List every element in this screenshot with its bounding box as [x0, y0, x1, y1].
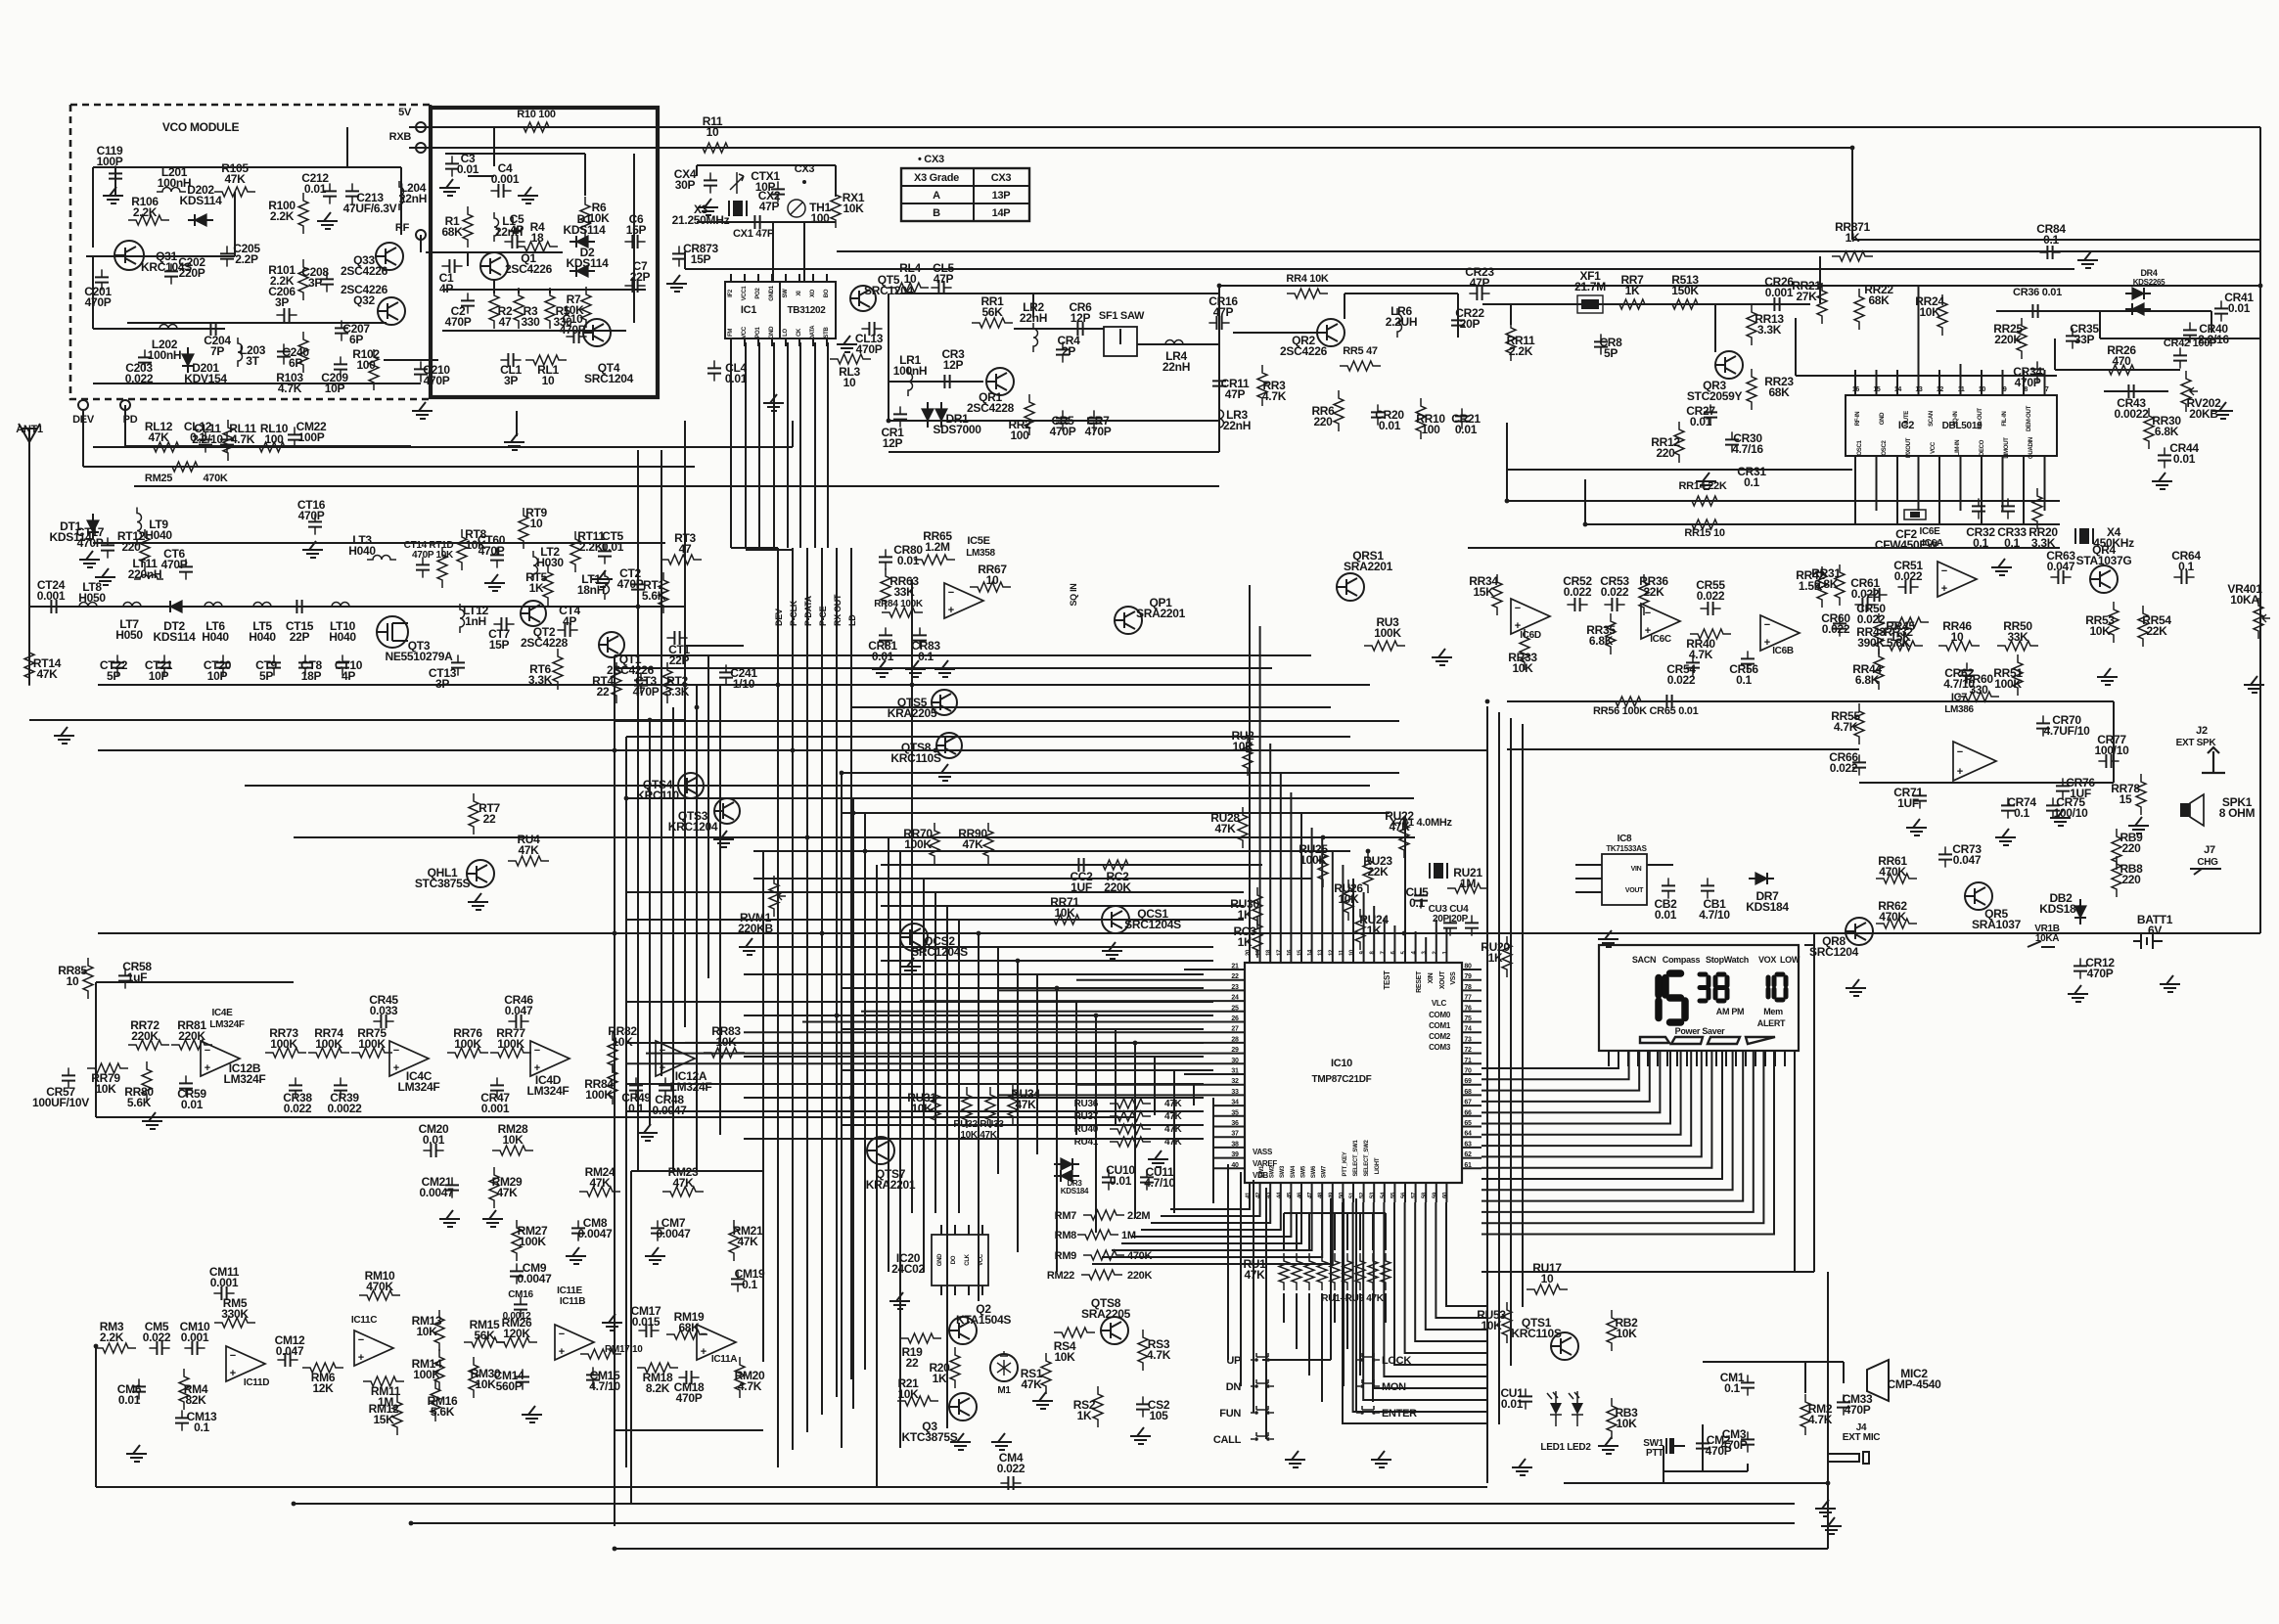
- inductor LT1 18nH: [605, 570, 610, 600]
- svg-text:0.0047: 0.0047: [653, 1104, 688, 1117]
- capacitor CL5 47P: [931, 287, 951, 289]
- wire IC1 pin drop 2: [745, 342, 747, 548]
- resistor RR65 1.2M: [914, 555, 955, 564]
- wire R3 top: [518, 290, 520, 293]
- wire LCD-IC10 net 3: [1481, 1051, 1639, 1091]
- svg-text:3P: 3P: [308, 276, 322, 290]
- wire: [835, 165, 837, 197]
- wire RX row bottom: [889, 420, 1219, 422]
- svg-text:OSC1: OSC1: [1857, 439, 1863, 455]
- IC10 bottom pin 57: [1415, 1183, 1417, 1202]
- svg-text:0.0012: 0.0012: [503, 1311, 532, 1322]
- jack J4 EXT MIC: [1828, 1452, 1869, 1464]
- svg-text:60: 60: [1442, 1192, 1448, 1198]
- capacitor CR32 0.1: [1978, 498, 1980, 519]
- wire RL row: [127, 446, 295, 448]
- svg-text:H050: H050: [78, 591, 106, 605]
- wire IC10 bottom net r7: [1405, 1202, 1487, 1353]
- svg-text:24: 24: [1231, 995, 1239, 1002]
- IC1 top pin 11: [798, 274, 800, 282]
- capacitor CC2 1UF: [1071, 864, 1091, 866]
- transistor QRS1 SRA2201: [1337, 573, 1364, 601]
- svg-text:IC6E: IC6E: [1919, 526, 1940, 537]
- capacitor CR20 0.01: [1377, 404, 1379, 425]
- IC10 left pin 28: [685, 1042, 1245, 1044]
- svg-text:2SC4226: 2SC4226: [341, 264, 388, 278]
- wire R1 link: [467, 251, 469, 266]
- resistor RU37 47K: [1110, 1111, 1151, 1121]
- svg-text:A: A: [933, 190, 940, 202]
- wire Q31 emitter drop: [92, 256, 94, 329]
- resistor RR26 470: [2101, 365, 2142, 375]
- ground below VCO: [504, 433, 524, 450]
- IC2 top pin 12: [1938, 385, 1940, 395]
- resistor RT1 5.6K: [659, 572, 668, 613]
- svg-text:0.047: 0.047: [1953, 853, 1982, 867]
- svg-text:SRA2201: SRA2201: [1136, 607, 1186, 620]
- svg-text:SACN: SACN: [1632, 955, 1656, 965]
- svg-text:25: 25: [1231, 1005, 1239, 1012]
- svg-text:SW4: SW4: [1291, 1165, 1297, 1178]
- resistor RR36 22K: [1639, 574, 1649, 615]
- wire mesh v14: [876, 865, 878, 1487]
- resistor RR12 220: [1674, 422, 1684, 463]
- IC10 top pin 9: [1363, 892, 1365, 963]
- junction: [977, 931, 981, 936]
- svg-text:82K: 82K: [185, 1393, 206, 1407]
- capacitor CR50 0.022: [1866, 594, 1887, 596]
- inductor L202 100nH: [154, 325, 183, 330]
- svg-text:68K: 68K: [1868, 293, 1890, 307]
- IC10 right pin 66: [1462, 1115, 1481, 1117]
- ground C3: [439, 179, 460, 196]
- capacitor CM10 0.001: [184, 1347, 205, 1349]
- wire IC11A out drop: [762, 851, 764, 1362]
- svg-text:RR14 22K: RR14 22K: [1679, 480, 1727, 492]
- wire IC10 bottom net r5: [1384, 1202, 1487, 1376]
- resistor RR71 10K: [1046, 915, 1087, 925]
- svg-text:GND: GND: [1880, 412, 1886, 425]
- LCD pin 12: [1715, 1051, 1717, 1066]
- capacitor CR11 47P: [1218, 373, 1220, 393]
- svg-text:47K: 47K: [737, 1235, 758, 1248]
- svg-text:47P: 47P: [1470, 276, 1490, 290]
- wire to IC1 b: [803, 222, 805, 282]
- IC10 left pin 36: [1213, 1126, 1245, 1128]
- svg-text:2SC4228: 2SC4228: [521, 636, 569, 650]
- svg-text:220: 220: [2121, 841, 2141, 855]
- svg-text:CLK: CLK: [965, 1253, 971, 1265]
- resistor RR7 1K: [1612, 299, 1653, 309]
- LCD pin 13: [1725, 1051, 1727, 1066]
- svg-text:KDS114: KDS114: [154, 630, 197, 644]
- svg-text:RU36: RU36: [1074, 1099, 1099, 1109]
- capacitor CR64 0.1: [2173, 576, 2194, 578]
- svg-text:47UF/6.3V: 47UF/6.3V: [343, 202, 397, 215]
- capacitor CR5 470P: [1062, 410, 1064, 430]
- svg-text:StopWatch: StopWatch: [1706, 955, 1749, 965]
- svg-text:0.01: 0.01: [1379, 419, 1401, 432]
- svg-text:IC10: IC10: [1331, 1058, 1352, 1069]
- svg-text:LOCK: LOCK: [1382, 1355, 1411, 1367]
- junction: [94, 1344, 99, 1349]
- svg-text:47K: 47K: [1164, 1099, 1183, 1109]
- IC10 left pin 29: [646, 1053, 1245, 1055]
- capacitor CR83 0.1: [919, 627, 921, 648]
- svg-text:0.001: 0.001: [37, 589, 66, 603]
- capacitor CR63 0.047: [2050, 576, 2071, 578]
- resistor RL4 10: [888, 283, 929, 293]
- svg-text:−: −: [948, 587, 954, 599]
- svg-text:DO: DO: [951, 1255, 957, 1264]
- svg-text:2.2K: 2.2K: [133, 205, 158, 219]
- svg-text:0.1: 0.1: [194, 1421, 209, 1434]
- svg-text:Power Saver: Power Saver: [1675, 1026, 1726, 1036]
- IC1 top pin 15: [744, 274, 746, 282]
- capacitor CM6 0.01: [138, 1378, 140, 1399]
- capacitor CT2 470P: [637, 576, 639, 597]
- transistor QR1 2SC4228: [986, 368, 1014, 395]
- wire bottom frame top: [631, 1170, 763, 1172]
- resistor RR60 330: [1958, 692, 1999, 701]
- svg-text:M1: M1: [997, 1385, 1011, 1396]
- junction: [1094, 1014, 1099, 1018]
- IC10 left pin 23: [998, 989, 1245, 991]
- junction: [695, 705, 700, 710]
- svg-text:70: 70: [1464, 1068, 1472, 1075]
- wire bottom left vert: [95, 1346, 97, 1487]
- svg-text:STB: STB: [824, 326, 830, 338]
- svg-text:0.047: 0.047: [276, 1344, 304, 1358]
- wire RU4 top: [1321, 1213, 1323, 1250]
- svg-text:47K: 47K: [1021, 1377, 1042, 1391]
- wire CR77 drop: [2113, 701, 2115, 783]
- LED LED1: [1550, 1403, 1562, 1415]
- wire VCO top rail: [93, 166, 401, 168]
- svg-text:DEV: DEV: [774, 609, 784, 626]
- svg-text:VCO MODULE: VCO MODULE: [162, 120, 240, 134]
- resistor RR56 100K: [1608, 697, 1649, 706]
- svg-text:470K: 470K: [1127, 1250, 1152, 1262]
- svg-text:39: 39: [1231, 1151, 1239, 1158]
- svg-text:P-CE: P-CE: [818, 606, 828, 626]
- svg-text:100K: 100K: [413, 1368, 440, 1381]
- svg-text:IC7: IC7: [1951, 692, 1967, 703]
- svg-text:0.022: 0.022: [1857, 612, 1886, 626]
- capacitor CR71 1UF: [1919, 788, 1921, 808]
- wire: [1584, 479, 1586, 524]
- capacitor CR21 0.01: [1461, 408, 1463, 429]
- wire LCD right outer vert: [1813, 933, 1815, 1272]
- capacitor CM15 4.7/10: [592, 1367, 594, 1387]
- junction: [648, 718, 653, 723]
- IC10 right pin 72: [1462, 1053, 1481, 1055]
- ground CM21: [439, 1210, 460, 1227]
- wire mesh h3: [98, 684, 1370, 686]
- wire R1 top: [468, 175, 494, 177]
- wire QR2 box left: [1218, 286, 1220, 421]
- wire bottom frame left: [630, 1171, 632, 1504]
- op-amp IC12B LM324F: [201, 1041, 240, 1076]
- wire LCD-IC10 net 2: [1481, 1051, 1629, 1079]
- IC10 right pin 71: [1462, 1062, 1481, 1064]
- resistor R100 2.2K: [298, 193, 308, 234]
- wire RR15 row: [1585, 523, 2060, 525]
- svg-text:22P: 22P: [290, 630, 310, 644]
- svg-text:IC6A: IC6A: [1922, 538, 1943, 549]
- svg-text:53: 53: [1370, 1192, 1376, 1198]
- svg-text:14: 14: [1894, 386, 1902, 393]
- wire top bus C: [1219, 285, 2260, 287]
- svg-text:100/10: 100/10: [2095, 744, 2130, 757]
- junction: [840, 771, 844, 776]
- svg-text:0.0047: 0.0047: [657, 1227, 692, 1241]
- capacitor CR6 12P: [1070, 328, 1090, 330]
- microphone MIC2 CMP-4540: [1867, 1360, 1889, 1401]
- IC10 bottom pin 60: [1445, 1183, 1447, 1202]
- wire SF1-LR4: [1137, 343, 1219, 345]
- junction: [1583, 522, 1588, 527]
- svg-text:15K: 15K: [373, 1413, 394, 1426]
- inductor L1 22nH: [494, 212, 499, 242]
- capacitor CL13 470P: [861, 328, 882, 330]
- svg-text:0.0022: 0.0022: [328, 1102, 363, 1115]
- wire IC10 bottom net 2: [1161, 1202, 1260, 1216]
- svg-text:10K 47K: 10K 47K: [960, 1130, 997, 1141]
- svg-text:LO: LO: [783, 329, 789, 337]
- svg-text:−: −: [701, 1329, 706, 1340]
- op-amp IC11C: [354, 1331, 393, 1366]
- capacitor CR61 0.022: [1854, 604, 1875, 606]
- svg-text:0.01: 0.01: [1110, 1174, 1132, 1188]
- svg-text:7P: 7P: [210, 344, 224, 358]
- IC10 left pin 34: [1213, 1105, 1245, 1106]
- wire IC2 drop 6: [1960, 466, 1962, 511]
- wire mesh h6: [626, 736, 1350, 738]
- resistor RR5 47: [1340, 361, 1381, 371]
- svg-text:0.01: 0.01: [725, 372, 748, 385]
- wire mic bottom: [1664, 1470, 1748, 1472]
- capacitor CR73 0.047: [1944, 846, 1946, 867]
- svg-text:TEST: TEST: [1383, 970, 1391, 990]
- capacitor CR8 5P: [1600, 334, 1602, 354]
- wire mesh v10: [719, 685, 721, 1135]
- wire RU array top rail: [1284, 1212, 1386, 1214]
- resistor R105 47K: [214, 187, 255, 197]
- ground QCS2: [900, 958, 921, 974]
- svg-text:XOUT: XOUT: [1439, 970, 1446, 989]
- IC1 bottom pin 5: [785, 338, 787, 346]
- svg-text:6.8K: 6.8K: [2155, 425, 2179, 438]
- svg-text:SELECT_SW1: SELECT_SW1: [1353, 1140, 1359, 1177]
- capacitor CR48 0.0047: [664, 1077, 666, 1098]
- svg-text:47P: 47P: [1225, 387, 1246, 401]
- wire VCO mid rail: [127, 322, 387, 324]
- capacitor C202 220P: [170, 263, 172, 284]
- wire mesh v17: [911, 579, 913, 1213]
- ground IC12A area: [637, 1124, 658, 1141]
- jack J7 CHG: [2190, 869, 2221, 875]
- ground Q3: [950, 1433, 971, 1450]
- svg-text:1K: 1K: [1846, 231, 1860, 245]
- transistor QCS1 SRC1204S: [1102, 906, 1129, 933]
- svg-text:34: 34: [1231, 1100, 1239, 1106]
- svg-text:SW6: SW6: [1311, 1165, 1317, 1178]
- capacitor CR56 0.1: [1747, 651, 1749, 671]
- capacitor CR873 15P: [678, 246, 680, 266]
- potentiometer RV202 20KB: [2181, 371, 2191, 412]
- wire mesh v15: [888, 837, 889, 1272]
- op-amp IC5E LM358: [944, 583, 983, 618]
- wire mesh v2: [625, 737, 627, 1467]
- resistor RU36 47K: [1110, 1099, 1151, 1108]
- op-amp IC6B: [1760, 615, 1800, 651]
- svg-text:12P: 12P: [943, 358, 964, 372]
- crystal X3 21.250MHz: [733, 201, 743, 216]
- svg-text:ALERT: ALERT: [1757, 1018, 1786, 1028]
- svg-text:Q32: Q32: [353, 293, 375, 307]
- IC10 right pin 75: [1462, 1021, 1481, 1023]
- wire mesh v5: [661, 450, 662, 1076]
- resistor RM13 10K: [434, 1310, 444, 1351]
- svg-text:470P: 470P: [424, 374, 450, 387]
- capacitor CM7 0.0047: [657, 1220, 659, 1241]
- resistor RR50 33K: [1997, 641, 2038, 651]
- capacitor CM4 0.022: [1000, 1482, 1021, 1484]
- capacitor CM20 0.01: [423, 1150, 443, 1151]
- svg-text:MXOUT: MXOUT: [1906, 437, 1912, 458]
- svg-text:18: 18: [531, 231, 544, 245]
- svg-text:49: 49: [1329, 1192, 1335, 1198]
- wire mesh h15: [753, 878, 1311, 880]
- wire IC2 riser 16: [1854, 370, 1856, 385]
- resistor RM5 330K: [214, 1318, 255, 1328]
- ground CR84: [2077, 251, 2098, 268]
- wire mesh v25: [1036, 974, 1038, 1154]
- IC IC8 TK71533AS: [1602, 854, 1647, 905]
- crystal X701: [1434, 863, 1443, 879]
- svg-text:68K: 68K: [441, 225, 463, 239]
- wire RU7 bottom: [1359, 1293, 1361, 1376]
- IC10 right pin 68: [1462, 1094, 1481, 1096]
- wire IC10 bottom net 8: [1102, 1202, 1322, 1257]
- wire mesh h18: [626, 919, 1244, 921]
- table col line: [973, 168, 975, 221]
- svg-text:10: 10: [1979, 386, 1986, 393]
- svg-text:100K: 100K: [585, 1088, 613, 1102]
- capacitor CM12 0.047: [277, 1359, 297, 1361]
- svg-text:4.7/10: 4.7/10: [1144, 1176, 1175, 1190]
- resistor RR55 4.7K: [1854, 703, 1864, 744]
- wire RR871 top: [1852, 239, 2260, 241]
- svg-text:470P: 470P: [1721, 1438, 1748, 1452]
- svg-text:BO: BO: [824, 289, 830, 297]
- IC1 top pin 10: [812, 274, 814, 282]
- transistor Q2 KTA1504S: [949, 1317, 977, 1344]
- wire Q1 emitter row: [442, 289, 641, 291]
- svg-text:1/10: 1/10: [733, 677, 755, 691]
- wire RU6 bottom: [1346, 1293, 1348, 1349]
- svg-text:5.6K: 5.6K: [127, 1096, 152, 1109]
- resistor RR3 4.7K: [1257, 365, 1267, 406]
- resistor R1 68K: [463, 206, 473, 248]
- wire mesh v22: [978, 933, 980, 1301]
- wire mesh v1: [614, 655, 615, 1526]
- resistor RR46 10: [1938, 641, 1980, 651]
- svg-text:15P: 15P: [489, 638, 510, 652]
- wire mesh v28: [1095, 1015, 1097, 1233]
- svg-text:470P: 470P: [1085, 425, 1112, 438]
- svg-text:−: −: [1515, 603, 1521, 614]
- svg-text:0.022: 0.022: [1697, 589, 1725, 603]
- switch DN: [1254, 1384, 1258, 1388]
- svg-text:22P: 22P: [669, 654, 690, 667]
- svg-text:10K: 10K: [416, 1325, 437, 1338]
- capacitor CM2 470P: [1702, 1435, 1704, 1456]
- resistor RM3 2.2K: [95, 1343, 136, 1353]
- svg-text:H040: H040: [202, 630, 229, 644]
- svg-text:OSC2: OSC2: [1882, 439, 1888, 455]
- junction: [1402, 931, 1407, 936]
- svg-text:COM2: COM2: [1429, 1032, 1451, 1041]
- svg-text:0.01: 0.01: [872, 650, 894, 663]
- ground RU array: [1148, 1150, 1168, 1167]
- wire: [1747, 1464, 1749, 1471]
- IC10 right pin 79: [1462, 979, 1481, 981]
- wire to IC1: [772, 222, 774, 282]
- svg-text:470P: 470P: [2015, 376, 2041, 389]
- resistor RR45 15K: [1882, 641, 1923, 651]
- svg-text:330: 330: [1969, 683, 1988, 697]
- svg-text:470P: 470P: [856, 342, 883, 356]
- wire RU2 bottom: [1296, 1293, 1298, 1349]
- capacitor CT4 4P: [557, 629, 577, 631]
- wire mesh h17: [881, 905, 1244, 907]
- svg-text:2.2UH: 2.2UH: [1386, 315, 1418, 329]
- svg-text:10: 10: [706, 125, 719, 139]
- capacitor CS2 105: [1142, 1396, 1144, 1417]
- LCD pin 14: [1735, 1051, 1737, 1066]
- wire filter input row: [29, 606, 685, 608]
- capacitor C208 3P: [326, 271, 328, 292]
- wire mesh v11: [841, 773, 843, 1448]
- capacitor C201 470P: [101, 269, 103, 290]
- resistor RR30 6.8K: [2144, 408, 2154, 449]
- capacitor C10 470P: [566, 336, 586, 338]
- svg-text:R10 100: R10 100: [517, 109, 556, 120]
- IC2 bottom pin 4: [1918, 456, 1920, 466]
- wire D2 to C7: [592, 289, 646, 291]
- svg-text:1UF: 1UF: [1897, 796, 1919, 810]
- wire 5V drop: [346, 127, 348, 167]
- svg-text:150K: 150K: [1671, 284, 1699, 297]
- wire mesh h21: [881, 960, 1213, 962]
- switch MON: [1360, 1384, 1364, 1388]
- svg-text:15K: 15K: [1473, 585, 1494, 599]
- junction: [1016, 959, 1021, 964]
- svg-text:SDS7000: SDS7000: [933, 423, 981, 436]
- wire LCD-IC10 net 16: [1481, 1051, 1774, 1235]
- svg-text:LM386: LM386: [1944, 704, 1974, 715]
- svg-text:1K: 1K: [1488, 951, 1503, 965]
- svg-text:KDS184: KDS184: [1746, 900, 1789, 914]
- inductor LR6 2.2UH: [1397, 308, 1402, 338]
- ground IC5E: [934, 660, 955, 677]
- capacitor CT6 470P: [185, 559, 187, 579]
- svg-text:73: 73: [1464, 1036, 1472, 1043]
- LCD digits 15 38 10: [1655, 978, 1663, 996]
- capacitor CM9 0.0047: [516, 1263, 518, 1284]
